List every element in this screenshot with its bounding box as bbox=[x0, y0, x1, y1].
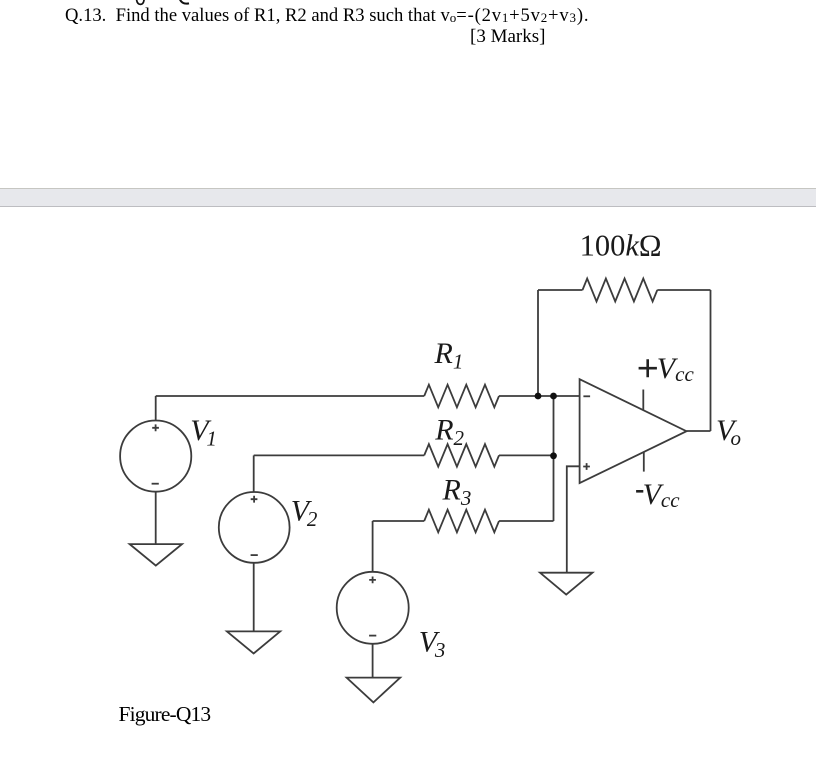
ground symbol at V2 bbox=[227, 631, 280, 653]
resistor R3 zigzag bbox=[424, 510, 499, 533]
voltage source V3 plus mark bbox=[369, 577, 376, 584]
wire R3 to summing node bbox=[499, 520, 554, 522]
svg-text:V2: V2 bbox=[291, 494, 318, 531]
feedback wire top left segment bbox=[538, 289, 583, 291]
voltage source V3 minus mark bbox=[369, 635, 376, 637]
feedback wire top right segment bbox=[657, 289, 710, 291]
voltage source V2 lead top bbox=[253, 455, 255, 492]
grey divider band bbox=[0, 188, 816, 207]
junction node dot B bbox=[550, 393, 557, 400]
feedback wire right vertical bbox=[710, 290, 712, 431]
svg-text:V3: V3 bbox=[419, 626, 446, 662]
voltage source V2 lead bottom bbox=[253, 563, 255, 632]
svg-text:R1: R1 bbox=[434, 337, 464, 374]
label -Vcc bbox=[636, 490, 643, 493]
ground symbol at V3 bbox=[347, 678, 401, 703]
figure caption bbox=[119, 704, 211, 726]
wire R1 to op-amp inverting input bbox=[499, 395, 580, 397]
resistor Rf 100k zigzag bbox=[583, 279, 658, 302]
wire R2 to summing node bbox=[499, 454, 554, 456]
voltage source V3 lead top bbox=[372, 521, 374, 572]
ground symbol at V1 bbox=[130, 544, 182, 566]
resistor R2 zigzag bbox=[424, 444, 499, 467]
voltage source V1 lead bottom bbox=[155, 492, 157, 544]
label +Vcc bbox=[639, 359, 657, 377]
wire op-amp non-inverting input L-bend bbox=[567, 466, 580, 572]
svg-text:Vcc: Vcc bbox=[657, 352, 695, 386]
remnant descenders of cut-off previous text line bbox=[0, 0, 220, 14]
resistor R1 zigzag bbox=[424, 385, 499, 408]
svg-text:V1: V1 bbox=[190, 414, 217, 451]
junction node dot C bbox=[550, 452, 557, 459]
ground symbol at op-amp bbox=[540, 573, 593, 595]
wire op-amp output bbox=[687, 430, 711, 432]
junction node dot A bbox=[535, 393, 542, 400]
op-amp non-inverting input plus sign bbox=[583, 463, 590, 470]
voltage source V2 plus mark bbox=[251, 496, 258, 503]
question text line 1 bbox=[65, 7, 589, 26]
feedback wire left vertical bbox=[537, 290, 539, 396]
wire V3 to R3 bbox=[373, 520, 425, 522]
voltage source V1 minus mark bbox=[152, 483, 159, 485]
op-amp U1 triangle bbox=[580, 379, 687, 483]
wire V2 to R2 bbox=[254, 454, 425, 456]
voltage source V3 lead bottom bbox=[372, 644, 374, 678]
svg-text:R3: R3 bbox=[442, 473, 472, 510]
svg-text:Vo: Vo bbox=[716, 414, 741, 450]
svg-text:100kΩ: 100kΩ bbox=[580, 228, 662, 262]
wire V1 to R1 bbox=[156, 395, 425, 397]
voltage source V1 lead top bbox=[155, 396, 157, 421]
voltage source V1 plus mark bbox=[152, 424, 159, 431]
voltage source V3 circle bbox=[337, 572, 409, 644]
voltage source V2 circle bbox=[219, 492, 290, 563]
op-amp inverting input minus sign bbox=[583, 395, 590, 397]
wire summing node vertical bbox=[553, 396, 555, 521]
op-amp -Vcc supply pin tick bbox=[643, 452, 645, 472]
voltage source V1 circle bbox=[120, 421, 191, 492]
voltage source V2 minus mark bbox=[251, 554, 258, 556]
svg-text:R2: R2 bbox=[434, 413, 464, 450]
question text line 2 bbox=[470, 27, 545, 46]
svg-text:Vcc: Vcc bbox=[643, 478, 681, 512]
op-amp +Vcc supply pin tick bbox=[642, 390, 644, 411]
